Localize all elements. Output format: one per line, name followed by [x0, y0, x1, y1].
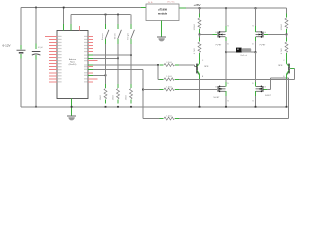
svg-text:10kΩ: 10kΩ: [113, 95, 115, 101]
svg-text:1.5kΩ: 1.5kΩ: [166, 86, 172, 88]
svg-text:Tilt rght: Tilt rght: [126, 33, 129, 40]
svg-text:100kΩ: 100kΩ: [194, 24, 196, 31]
svg-text:+28V: +28V: [193, 3, 200, 7]
svg-text:6-12V: 6-12V: [3, 44, 11, 48]
svg-text:uT1909: uT1909: [158, 8, 167, 12]
svg-text:4.7kΩ: 4.7kΩ: [194, 48, 196, 54]
svg-text:Tilt left: Tilt left: [113, 33, 116, 39]
svg-text:N-FET: N-FET: [265, 95, 272, 97]
svg-text:P-FET: P-FET: [216, 44, 223, 46]
svg-text:47µF: 47µF: [38, 47, 44, 49]
svg-text:(Rev3.0): (Rev3.0): [69, 64, 77, 66]
svg-text:module: module: [158, 12, 168, 16]
svg-text:N-FET: N-FET: [214, 97, 221, 99]
svg-text:100kΩ: 100kΩ: [281, 24, 283, 31]
svg-text:1.5kΩ: 1.5kΩ: [166, 115, 172, 117]
svg-text:Bumper: Bumper: [102, 33, 104, 40]
svg-text:4.7kΩ: 4.7kΩ: [281, 48, 283, 54]
svg-text:10kΩ: 10kΩ: [126, 95, 128, 101]
svg-text:1.5kΩ: 1.5kΩ: [166, 76, 172, 78]
svg-text:Arduino: Arduino: [69, 58, 77, 61]
svg-text:Ball col: Ball col: [240, 55, 247, 57]
svg-text:NPN: NPN: [204, 66, 209, 68]
svg-text:NPN: NPN: [278, 65, 283, 67]
svg-text:VO+ VO-: VO+ VO-: [167, 1, 175, 3]
svg-text:10kΩ: 10kΩ: [100, 95, 102, 101]
svg-text:B+ B-: B+ B-: [148, 2, 153, 4]
svg-text:P-FET: P-FET: [260, 44, 267, 46]
svg-text:3.3kΩ: 3.3kΩ: [166, 62, 172, 64]
